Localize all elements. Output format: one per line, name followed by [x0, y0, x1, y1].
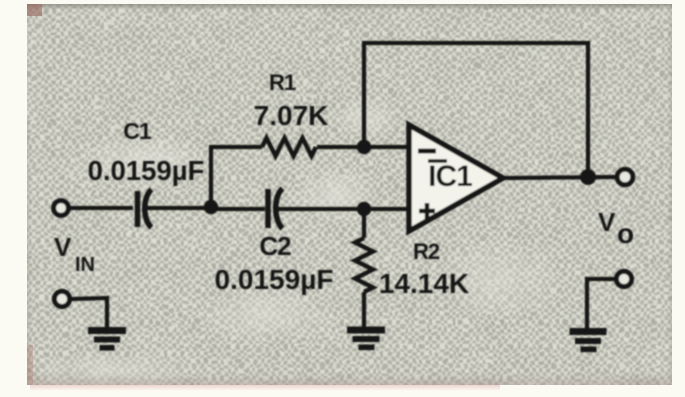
feedback wire — [364, 43, 588, 177]
resistor R2 — [355, 238, 373, 292]
faint red corner mark — [27, 4, 42, 16]
ground (center) — [347, 327, 385, 351]
wire output ground — [587, 279, 616, 328]
input ground terminal circle — [54, 291, 69, 306]
wire node C down to R2 — [362, 209, 366, 238]
capacitor C1 — [138, 190, 152, 228]
wire node B to op-amp minus input — [364, 145, 409, 149]
darker top edge of scan — [27, 4, 672, 10]
ground (right) — [570, 328, 607, 352]
darker right edge of scan — [668, 4, 672, 385]
capacitor C2 — [268, 189, 283, 229]
op-amp IC1 — [409, 125, 503, 231]
svg-text:0.0159µF: 0.0159µF — [88, 155, 205, 186]
svg-text:14.14K: 14.14K — [379, 268, 469, 299]
node B junction dot — [357, 140, 371, 154]
wire riser node A up — [209, 147, 213, 208]
input terminal circle — [54, 201, 69, 216]
wire input to C1 — [69, 206, 133, 210]
svg-text:IN: IN — [75, 254, 95, 276]
wire node C to op-amp plus input — [364, 207, 409, 211]
faint red left-bottom mark — [27, 345, 33, 385]
svg-text:IC1: IC1 — [428, 160, 472, 193]
output terminal circle — [617, 169, 633, 185]
svg-text:V: V — [598, 207, 616, 237]
node C junction dot — [357, 202, 371, 216]
minus sign — [418, 149, 436, 154]
wire R1 to node B — [317, 145, 364, 149]
svg-text:R1: R1 — [269, 70, 296, 95]
svg-text:V: V — [54, 232, 72, 262]
wire node A to C2 — [211, 207, 265, 211]
darker left edge of scan — [27, 120, 32, 385]
plus sign — [419, 203, 435, 219]
svg-text:C2: C2 — [259, 231, 291, 261]
light scan patches — [70, 135, 220, 190]
pink smear below scan — [30, 385, 500, 391]
wire C1 to node A — [146, 206, 211, 210]
wire R2 to ground — [362, 292, 366, 328]
svg-text:R2: R2 — [413, 239, 440, 264]
output ground terminal circle — [616, 271, 631, 286]
output junction dot — [580, 169, 596, 185]
resistor R1 — [262, 138, 316, 156]
output wire — [503, 177, 617, 178]
IC1 overbar mark — [428, 159, 447, 163]
svg-text:7.07K: 7.07K — [254, 100, 329, 131]
svg-text:0.0159µF: 0.0159µF — [215, 264, 334, 295]
darker bottom edge of scan — [27, 373, 672, 385]
node A junction dot — [204, 200, 218, 214]
svg-text:o: o — [617, 218, 634, 249]
wire C2 to node C — [277, 207, 364, 211]
wire to R1 — [209, 145, 262, 149]
svg-text:C1: C1 — [123, 118, 152, 144]
wire input ground — [70, 298, 107, 327]
ground (left) — [88, 327, 126, 351]
